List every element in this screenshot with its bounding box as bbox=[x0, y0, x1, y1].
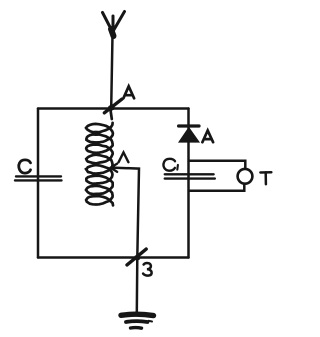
wire phone loop top bbox=[189, 161, 245, 169]
capacitor C plates bbox=[15, 176, 62, 180]
label C1 bbox=[163, 159, 177, 171]
wire phone loop bottom bbox=[189, 185, 244, 191]
junction node A slash bbox=[104, 99, 121, 113]
wire ground lead bbox=[136, 258, 139, 314]
junction node A blob bbox=[108, 105, 115, 111]
wire right bbox=[187, 109, 190, 258]
label A antenna node bbox=[123, 86, 134, 98]
label C bbox=[19, 160, 31, 173]
antenna bbox=[103, 12, 125, 37]
terminal T phone jack bbox=[238, 169, 253, 184]
wire antenna lead bbox=[111, 35, 112, 108]
label A diode bbox=[202, 131, 213, 143]
wire left bbox=[37, 109, 40, 258]
capacitor C1 plates bbox=[165, 174, 215, 178]
wire top bbox=[38, 107, 189, 110]
ground bbox=[121, 314, 154, 328]
inductor L1 bbox=[86, 110, 113, 205]
label 3 bbox=[143, 263, 152, 276]
tap arrowhead bbox=[111, 164, 118, 172]
junction node 3 blob bbox=[134, 255, 140, 261]
wire bottom bbox=[38, 256, 189, 259]
tap wire bbox=[112, 168, 139, 258]
junction node 3 slash bbox=[127, 249, 146, 265]
label A tap caret bbox=[119, 152, 129, 162]
diode D1 bbox=[179, 126, 199, 142]
label T bbox=[260, 172, 271, 184]
